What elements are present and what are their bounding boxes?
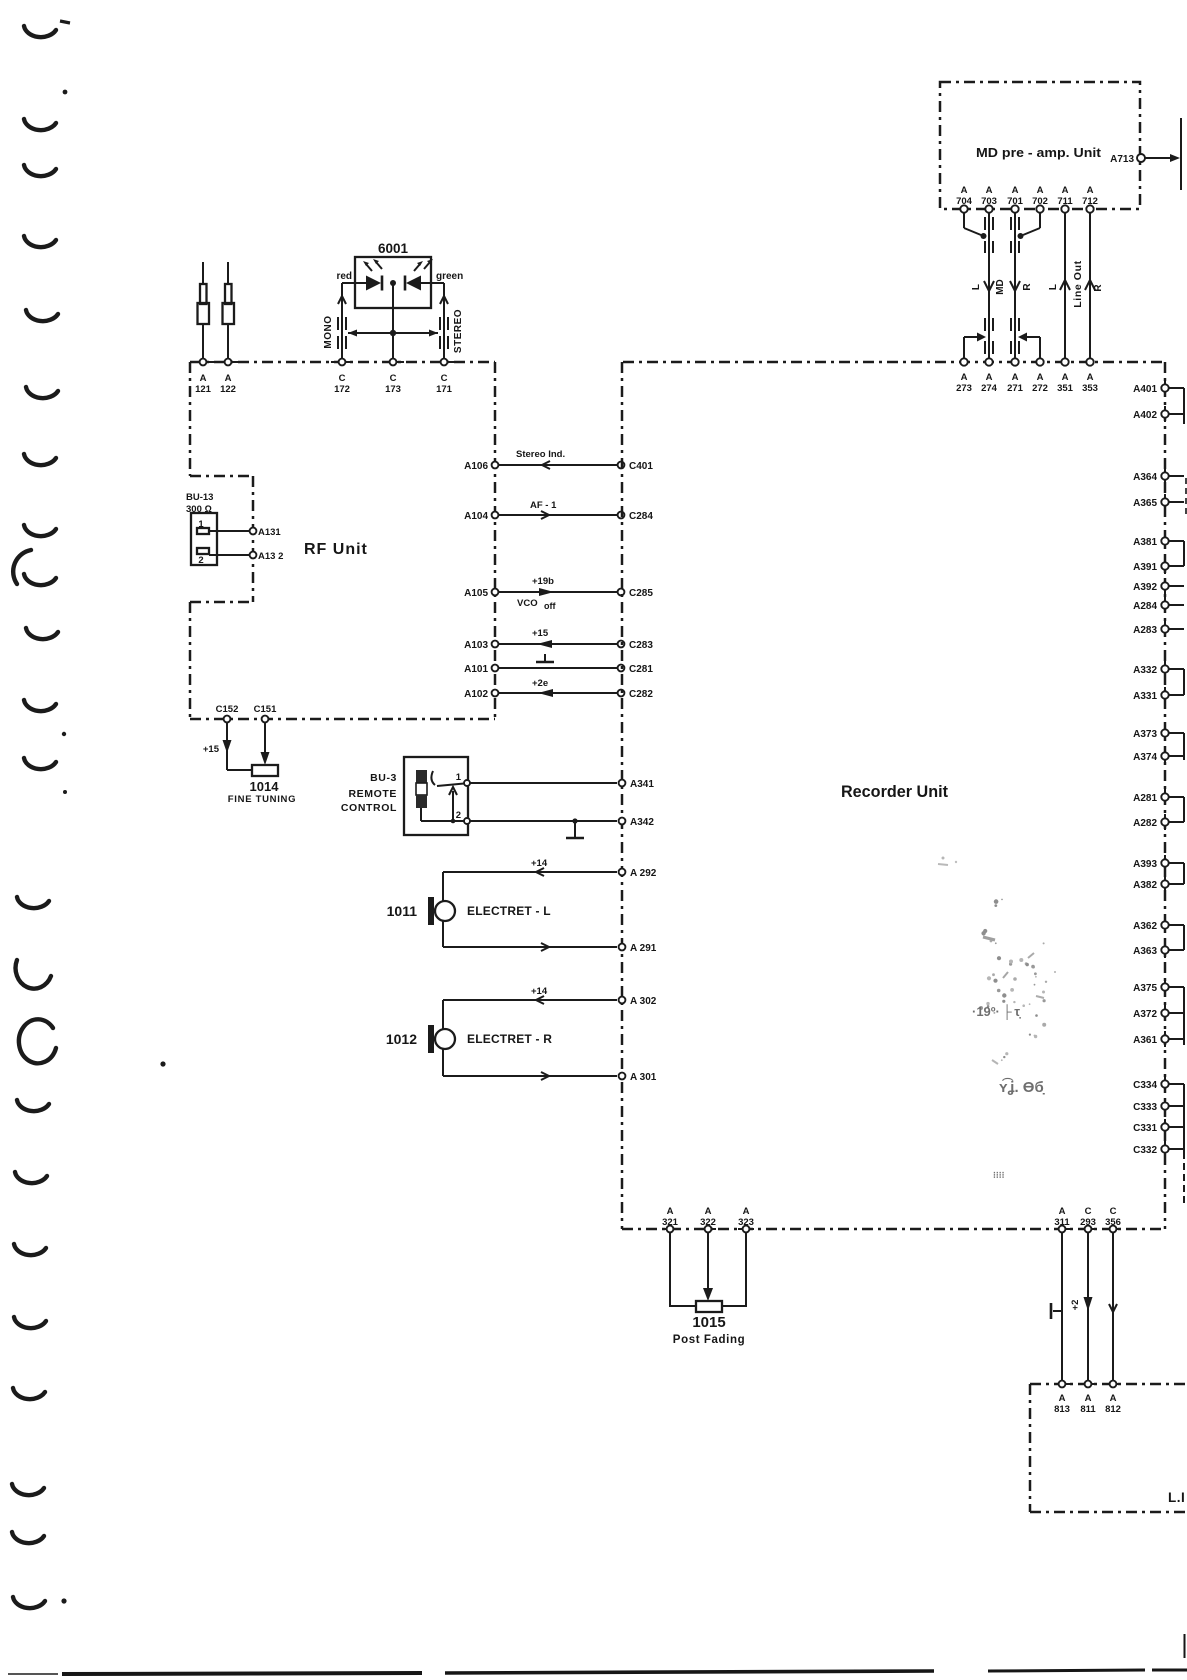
- svg-text:A: A: [743, 1206, 750, 1217]
- svg-text:A: A: [705, 1206, 712, 1217]
- svg-text:1011: 1011: [387, 903, 418, 919]
- RF Unit boundary bottom edge: [190, 718, 495, 721]
- terminal A281: [1133, 789, 1184, 805]
- svg-text:red: red: [336, 271, 352, 282]
- shield marks mono cable: [338, 317, 346, 349]
- svg-text:2: 2: [198, 555, 203, 566]
- terminal C151: [254, 704, 277, 722]
- wire C152 down with +15 arrow: [203, 722, 252, 770]
- wire A311 to A813 with ground tick: [1051, 1232, 1062, 1381]
- svg-text:A: A: [986, 372, 993, 383]
- terminal A273: [956, 353, 972, 394]
- svg-text:1015: 1015: [692, 1314, 725, 1331]
- terminal A283: [1133, 621, 1184, 637]
- svg-text:A363: A363: [1133, 946, 1157, 957]
- svg-text:A105: A105: [464, 588, 488, 599]
- svg-text:CONTROL: CONTROL: [341, 802, 397, 814]
- binder hole arc 7: [24, 454, 56, 465]
- binder hole arc 18: [13, 1388, 45, 1399]
- terminal A351: [1057, 353, 1074, 394]
- svg-text:6001: 6001: [378, 241, 409, 256]
- svg-text:A 291: A 291: [630, 943, 657, 954]
- svg-text:A 302: A 302: [630, 996, 657, 1007]
- svg-text:C334: C334: [1133, 1080, 1157, 1091]
- svg-text:293: 293: [1080, 1217, 1096, 1228]
- LED green D2: [405, 259, 433, 291]
- binder hole arc 3: [24, 165, 56, 176]
- svg-text:C151: C151: [254, 704, 277, 715]
- binder hole arc 19: [12, 1484, 44, 1495]
- terminal A363: [1133, 942, 1184, 958]
- svg-text:MD pre - amp. Unit: MD pre - amp. Unit: [976, 145, 1102, 160]
- shield tie bar with arrows: [348, 330, 438, 337]
- potentiometer 1015 Post Fading: [673, 1301, 745, 1346]
- svg-text:121: 121: [195, 384, 212, 395]
- svg-text:1014: 1014: [250, 779, 280, 794]
- svg-text:C333: C333: [1133, 1102, 1157, 1113]
- antenna 1011a mast: [198, 262, 210, 359]
- svg-text:green: green: [436, 271, 463, 282]
- svg-text:REMOTE: REMOTE: [348, 788, 397, 800]
- node LED centre: [390, 280, 396, 286]
- binder hole arc 20: [12, 1532, 44, 1543]
- svg-text:C331: C331: [1133, 1123, 1157, 1134]
- binder hole arc 6: [26, 387, 58, 398]
- svg-text:322: 322: [700, 1217, 716, 1228]
- terminal A813: [1054, 1381, 1070, 1415]
- shielded cable MD-R A701 to A271: [1010, 212, 1033, 359]
- svg-text:171: 171: [436, 384, 453, 395]
- RF Unit boundary notch right: [252, 476, 255, 602]
- binder hole arc 13: [17, 897, 49, 908]
- terminal A292: [619, 868, 657, 879]
- terminal A392: [1133, 578, 1184, 594]
- binder hole arc 2: [24, 119, 56, 130]
- svg-text:C332: C332: [1133, 1145, 1157, 1156]
- microphone 1012 ELECTRET-R: [386, 1025, 552, 1053]
- svg-text:Post Fading: Post Fading: [673, 1334, 745, 1346]
- terminal A331: [1133, 687, 1184, 703]
- binder hole arc 12: [24, 758, 56, 769]
- terminal A393: [1133, 855, 1184, 871]
- Recorder Unit boundary bottom edge: [622, 1228, 1165, 1231]
- shield marks stereo cable: [440, 317, 448, 349]
- svg-text:A: A: [986, 185, 993, 196]
- svg-text:A102: A102: [464, 689, 488, 700]
- svg-text:A: A: [1062, 185, 1069, 196]
- svg-text:A: A: [1059, 1393, 1066, 1404]
- svg-text:812: 812: [1105, 1404, 1121, 1415]
- wire BU-13 pin1 to A131: [209, 530, 249, 532]
- lower unit boundary left edge: [1029, 1384, 1032, 1512]
- signal row +19b VCO off: A105 to C285: [464, 576, 653, 611]
- svg-text:122: 122: [220, 384, 236, 395]
- svg-text:1012: 1012: [386, 1031, 417, 1047]
- terminal C356: [1105, 1206, 1121, 1232]
- svg-text:A372: A372: [1133, 1009, 1157, 1020]
- wire A702 to shield node: [1018, 213, 1041, 239]
- svg-text:+19b: +19b: [532, 576, 554, 587]
- binder hole arc 21: [13, 1597, 45, 1608]
- binder hole arc 17: [14, 1317, 46, 1328]
- svg-text:A282: A282: [1133, 818, 1157, 829]
- binder hole arc 8: [24, 525, 56, 536]
- wire Line Out L A711 to A351: [1048, 212, 1070, 359]
- svg-text:BU-3: BU-3: [370, 772, 397, 784]
- binder hole O arc: [19, 1019, 56, 1063]
- terminal A382: [1133, 876, 1184, 892]
- terminal A391: [1133, 558, 1184, 574]
- svg-text:off: off: [544, 601, 556, 611]
- page-bleed dash at right edge: [1185, 478, 1187, 517]
- terminal A301: [619, 1072, 657, 1083]
- svg-text:A401: A401: [1133, 384, 1157, 395]
- svg-text:A: A: [667, 1206, 674, 1217]
- terminal A342: [619, 817, 655, 828]
- svg-text:272: 272: [1032, 383, 1048, 394]
- svg-text:A104: A104: [464, 511, 488, 522]
- svg-text:Line Out: Line Out: [1072, 260, 1084, 307]
- svg-text:FINE TUNING: FINE TUNING: [228, 794, 296, 805]
- wire BU-13 pin2 to A132: [209, 554, 249, 556]
- terminal C172: [331, 359, 353, 395]
- svg-text:A713: A713: [1110, 154, 1134, 165]
- svg-text:C284: C284: [629, 511, 653, 522]
- top-left tick: [60, 21, 70, 23]
- svg-text:A402: A402: [1133, 410, 1157, 421]
- terminal A291: [619, 943, 657, 954]
- terminal C293: [1080, 1206, 1096, 1232]
- terminal A311: [1054, 1206, 1070, 1232]
- RF Unit boundary notch top: [190, 475, 253, 478]
- wire C293 to A811 with +2 arrow: [1070, 1232, 1093, 1381]
- electret mic 1011 feed wire +14: [443, 858, 617, 901]
- svg-text:A: A: [1059, 1206, 1066, 1217]
- pencil stain smudges: [938, 857, 1056, 1181]
- svg-text:173: 173: [385, 384, 401, 395]
- svg-text:A331: A331: [1133, 691, 1157, 702]
- arrow up STEREO: [440, 296, 448, 304]
- binder hole arc 9: [24, 574, 56, 585]
- svg-text:R: R: [1093, 284, 1104, 292]
- RF Unit boundary left edge upper: [189, 362, 192, 476]
- binder hole arc 5: [26, 310, 58, 321]
- svg-text:273: 273: [956, 383, 972, 394]
- svg-text:A391: A391: [1133, 562, 1157, 573]
- svg-text:C401: C401: [629, 461, 653, 472]
- svg-text:+2: +2: [1070, 1300, 1081, 1311]
- svg-text:311: 311: [1054, 1217, 1070, 1228]
- svg-text:172: 172: [334, 384, 350, 395]
- svg-text:C285: C285: [629, 588, 653, 599]
- arrow up MONO: [338, 296, 346, 304]
- connector BU-13: [186, 492, 217, 566]
- terminal A132: [250, 551, 284, 562]
- terminal A702: [1032, 185, 1048, 218]
- terminal A373: [1133, 725, 1184, 741]
- terminal A402: [1133, 406, 1184, 422]
- wire A272 to shield node: [1018, 333, 1040, 359]
- terminal A812: [1105, 1381, 1121, 1415]
- wire C151 down arrow to pot wiper: [261, 722, 270, 765]
- svg-text:A: A: [200, 373, 207, 384]
- svg-text:A13 2: A13 2: [258, 551, 283, 562]
- svg-text:C281: C281: [629, 664, 653, 675]
- svg-text:A101: A101: [464, 664, 488, 675]
- svg-text:A342: A342: [630, 817, 654, 828]
- signal row Stereo Ind: A106 to C401: [464, 449, 653, 472]
- electret mic 1012 feed wire +14: [443, 986, 617, 1029]
- terminal A372: [1133, 1005, 1184, 1021]
- svg-text:A: A: [1012, 185, 1019, 196]
- svg-text:323: 323: [738, 1217, 754, 1228]
- binder hole deep arc: [16, 960, 51, 989]
- svg-text:⁝⁝⁝⁝: ⁝⁝⁝⁝: [993, 1170, 1005, 1180]
- svg-text:+15: +15: [203, 744, 220, 755]
- svg-text:ELECTRET - R: ELECTRET - R: [467, 1032, 552, 1046]
- terminal A121: [192, 359, 214, 395]
- Recorder Unit boundary top edge: [623, 361, 1165, 364]
- svg-text:811: 811: [1080, 1404, 1096, 1415]
- svg-text:A: A: [1012, 372, 1019, 383]
- off-page link bars: [1183, 388, 1185, 1152]
- svg-text:L: L: [1048, 284, 1059, 290]
- svg-text:A361: A361: [1133, 1035, 1157, 1046]
- wire A322 to pot 1015 wiper: [703, 1232, 713, 1301]
- svg-text:C: C: [339, 373, 346, 384]
- lower unit boundary top edge: [1030, 1383, 1187, 1386]
- signal row AF-1: A104 to C284: [464, 500, 653, 522]
- svg-text:MD: MD: [995, 279, 1006, 295]
- terminal A274: [981, 353, 998, 394]
- svg-text:C282: C282: [629, 689, 653, 700]
- terminal A704: [956, 185, 973, 218]
- terminal A364: [1133, 468, 1184, 484]
- terminal C171: [433, 359, 455, 395]
- svg-text:A: A: [1087, 372, 1094, 383]
- binder hole arc 11: [24, 700, 56, 711]
- terminal A362: [1133, 917, 1184, 933]
- svg-text:+2e: +2e: [532, 678, 548, 689]
- svg-text:L.I: L.I: [1168, 1490, 1185, 1505]
- terminal A811: [1080, 1381, 1096, 1415]
- svg-text:A382: A382: [1133, 880, 1157, 891]
- binder hole arc 1: [24, 26, 56, 37]
- svg-text:ʏ͡ʝ. Өб̣: ʏ͡ʝ. Өб̣: [999, 1078, 1046, 1096]
- svg-text:A: A: [1037, 372, 1044, 383]
- svg-text:A281: A281: [1133, 793, 1157, 804]
- binder hole arc 4: [24, 236, 56, 247]
- svg-text:351: 351: [1057, 383, 1074, 394]
- svg-text:Stereo Ind.: Stereo Ind.: [516, 449, 565, 460]
- svg-text:MONO: MONO: [323, 315, 334, 348]
- svg-text:+14: +14: [531, 858, 548, 869]
- terminal C332: [1133, 1141, 1184, 1157]
- signal row +15: A103 to C283: [464, 628, 653, 651]
- svg-text:A 301: A 301: [630, 1072, 657, 1083]
- Recorder Unit boundary right edge: [1164, 362, 1167, 1229]
- svg-text:A283: A283: [1133, 625, 1157, 636]
- terminal A282: [1133, 814, 1184, 830]
- Recorder Unit boundary left edge: [621, 362, 624, 1229]
- svg-text:A392: A392: [1133, 582, 1157, 593]
- terminal A361: [1133, 1031, 1184, 1047]
- svg-text:C283: C283: [629, 640, 653, 651]
- svg-text:A365: A365: [1133, 498, 1157, 509]
- MD pre-amp Unit boundary: [940, 82, 1140, 209]
- microphone 1011 ELECTRET-L: [387, 897, 551, 925]
- LED red D1: [363, 259, 382, 291]
- signal row +2e: A102 to C282: [464, 678, 653, 700]
- mic 1011 output wire: [443, 921, 617, 951]
- svg-text:A284: A284: [1133, 601, 1157, 612]
- svg-text:A373: A373: [1133, 729, 1157, 740]
- RF Unit boundary right edge: [494, 362, 497, 719]
- svg-text:C: C: [390, 373, 397, 384]
- binder hole arc 10: [26, 628, 58, 639]
- page bottom edge dashes: [8, 1634, 1187, 1674]
- terminal A341: [619, 779, 655, 790]
- terminal C334: [1133, 1076, 1184, 1092]
- svg-text:271: 271: [1007, 383, 1024, 394]
- off-page tail below C332 group: [1183, 1152, 1185, 1205]
- svg-text:A: A: [1085, 1393, 1092, 1404]
- terminal A713: [1110, 154, 1180, 165]
- binder hole arc 15: [15, 1172, 47, 1183]
- svg-text:·19º· ├ τ̣: ·19º· ├ τ̣: [972, 1004, 1021, 1020]
- svg-text:A393: A393: [1133, 859, 1157, 870]
- wire BU-3 pin1 to A341: [470, 782, 617, 784]
- wire MONO drop: [341, 283, 343, 359]
- binder hole paren arc: [13, 550, 31, 584]
- svg-text:A375: A375: [1133, 983, 1157, 994]
- terminal A401: [1133, 380, 1184, 396]
- svg-text:C152: C152: [216, 704, 239, 715]
- off-page bus bar right of A713: [1180, 118, 1182, 190]
- terminal A701: [1007, 185, 1024, 218]
- binder hole arc 14: [17, 1100, 49, 1111]
- terminal A323: [738, 1206, 754, 1232]
- RF Unit boundary top edge: [190, 361, 495, 364]
- terminal A381: [1133, 533, 1184, 549]
- terminal C173: [382, 359, 404, 395]
- terminal A374: [1133, 748, 1184, 764]
- terminal A711: [1057, 185, 1073, 218]
- wire STEREO drop: [443, 283, 445, 359]
- svg-text:A332: A332: [1133, 665, 1157, 676]
- wire A323 to pot 1015 right: [722, 1232, 746, 1306]
- wire A273 to shield node: [964, 333, 986, 359]
- svg-text:A: A: [1062, 372, 1069, 383]
- wire LED row: [342, 282, 366, 284]
- terminal C333: [1133, 1098, 1184, 1114]
- svg-text:274: 274: [981, 383, 998, 394]
- wire C356 to A812: [1109, 1232, 1117, 1381]
- terminal A332: [1133, 661, 1184, 677]
- potentiometer 1014: [228, 765, 296, 805]
- svg-text:A374: A374: [1133, 752, 1157, 763]
- svg-text:C: C: [441, 373, 448, 384]
- svg-text:+14: +14: [531, 986, 548, 997]
- terminal A271: [1007, 353, 1024, 394]
- svg-text:C: C: [1085, 1206, 1092, 1217]
- antenna 2 mast: [223, 262, 235, 359]
- wire Line Out R A712 to A353: [1085, 212, 1104, 359]
- svg-text:C: C: [1110, 1206, 1117, 1217]
- signal row ground: A101 to C281: [464, 654, 653, 675]
- svg-text:BU-13: BU-13: [186, 492, 213, 503]
- terminal A272: [1032, 353, 1048, 394]
- svg-text:353: 353: [1082, 383, 1098, 394]
- speck dot: [160, 1061, 165, 1066]
- terminal A284: [1133, 597, 1184, 613]
- wire A321 to pot 1015 left: [670, 1232, 696, 1306]
- specks: [63, 90, 68, 95]
- wire centre drop C173: [392, 283, 394, 359]
- terminal A375: [1133, 979, 1184, 995]
- svg-text:1: 1: [456, 772, 462, 783]
- terminal A122: [217, 359, 239, 395]
- svg-text:A: A: [1110, 1393, 1117, 1404]
- svg-text:VCO: VCO: [517, 598, 538, 609]
- binder hole arc 16: [14, 1244, 46, 1255]
- shielded cable MD-L A703 to A274: [971, 212, 1006, 359]
- terminal A365: [1133, 494, 1184, 510]
- svg-text:AF - 1: AF - 1: [530, 500, 557, 511]
- svg-text:A341: A341: [630, 779, 654, 790]
- terminal A321: [662, 1206, 679, 1232]
- svg-text:R: R: [1022, 283, 1033, 291]
- svg-text:A: A: [961, 185, 968, 196]
- terminal C152: [216, 704, 239, 722]
- RF Unit boundary notch bottom: [190, 601, 253, 604]
- svg-text:A103: A103: [464, 640, 488, 651]
- svg-text:813: 813: [1054, 1404, 1070, 1415]
- terminal A131: [250, 527, 282, 538]
- RF Unit boundary left edge lower: [189, 602, 192, 719]
- svg-text:A: A: [225, 373, 232, 384]
- svg-text:ELECTRET - L: ELECTRET - L: [467, 904, 551, 918]
- connector BU-3 remote control: [341, 757, 470, 835]
- terminal A712: [1082, 185, 1098, 218]
- terminal A302: [619, 996, 657, 1007]
- svg-text:Recorder Unit: Recorder Unit: [841, 782, 948, 801]
- terminal A703: [981, 185, 997, 218]
- svg-text:A: A: [961, 372, 968, 383]
- terminal A353: [1082, 353, 1098, 394]
- svg-text:A 292: A 292: [630, 868, 657, 879]
- svg-text:+15: +15: [532, 628, 549, 639]
- wire BU-3 pin2 to A342 with chassis ground: [470, 818, 617, 838]
- svg-text:A: A: [1037, 185, 1044, 196]
- LED assembly 6001 box: [355, 257, 431, 308]
- svg-text:STEREO: STEREO: [453, 309, 464, 353]
- svg-text:A: A: [1087, 185, 1094, 196]
- mic 1012 output wire: [443, 1049, 617, 1080]
- svg-text:RF Unit: RF Unit: [304, 541, 368, 558]
- svg-text:A362: A362: [1133, 921, 1157, 932]
- svg-text:L: L: [971, 284, 982, 290]
- svg-text:A131: A131: [258, 527, 281, 538]
- svg-text:321: 321: [662, 1217, 679, 1228]
- svg-text:356: 356: [1105, 1217, 1121, 1228]
- svg-text:2: 2: [456, 810, 461, 821]
- svg-text:A381: A381: [1133, 537, 1157, 548]
- terminal A322: [700, 1206, 716, 1232]
- wire A704 to shield node: [964, 213, 987, 239]
- svg-text:A106: A106: [464, 461, 488, 472]
- terminal C331: [1133, 1119, 1184, 1135]
